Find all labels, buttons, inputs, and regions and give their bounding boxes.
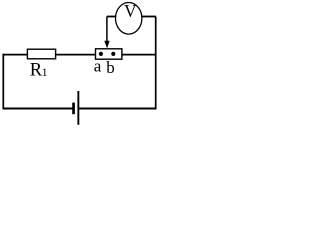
- svg-text:R: R: [30, 60, 43, 80]
- svg-text:V: V: [124, 1, 137, 21]
- svg-text:a: a: [94, 56, 102, 75]
- svg-text:b: b: [106, 58, 115, 77]
- svg-text:1: 1: [42, 67, 48, 79]
